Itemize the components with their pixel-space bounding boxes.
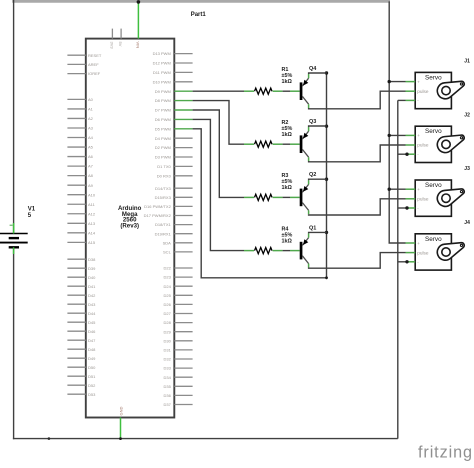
pin AREF bbox=[67, 63, 85, 65]
junction dot minus J3 bbox=[405, 206, 408, 209]
svg-text:D11 PWM: D11 PWM bbox=[153, 70, 171, 75]
wire D5 to emitter rail bbox=[193, 129, 327, 278]
pin D36 bbox=[174, 394, 192, 396]
pin D37 bbox=[174, 404, 192, 406]
pin D52 bbox=[67, 384, 85, 386]
svg-text:D30: D30 bbox=[163, 338, 171, 343]
svg-text:D0 RX0: D0 RX0 bbox=[157, 173, 172, 178]
servo J2 bbox=[406, 126, 452, 162]
pin D7 PWM bbox=[174, 109, 192, 111]
junction dot minus J2 bbox=[405, 153, 408, 156]
svg-text:A13: A13 bbox=[88, 221, 96, 226]
pin D41 bbox=[67, 285, 85, 287]
svg-text:Q1: Q1 bbox=[309, 225, 316, 231]
pin A14 bbox=[67, 232, 85, 234]
pin D6 PWM bbox=[174, 118, 192, 120]
svg-text:D50: D50 bbox=[88, 365, 96, 370]
svg-text:D2 PWM: D2 PWM bbox=[155, 145, 171, 150]
pin D42 bbox=[67, 294, 85, 296]
svg-text:D39: D39 bbox=[88, 266, 96, 271]
svg-text:D7 PWM: D7 PWM bbox=[155, 108, 171, 113]
resistor R3 1k 5% bbox=[244, 194, 290, 200]
pin D15/RX3 bbox=[174, 196, 192, 198]
svg-text:D29: D29 bbox=[163, 329, 171, 334]
svg-text:A10: A10 bbox=[88, 192, 96, 197]
wire top bus from battery plus to servo 5V rail bbox=[12, 0, 390, 3]
svg-text:Servo: Servo bbox=[425, 128, 442, 135]
junction dot 5V rail J1 bbox=[388, 80, 391, 83]
svg-text:D52: D52 bbox=[88, 383, 96, 388]
wire minus rail right bbox=[397, 100, 399, 438]
transistor Q1 PNP bbox=[290, 233, 309, 267]
svg-text:D22: D22 bbox=[163, 266, 171, 271]
pin D32 bbox=[174, 358, 192, 360]
svg-text:D27: D27 bbox=[163, 311, 171, 316]
svg-text:fritzing: fritzing bbox=[418, 444, 473, 462]
wire 5V rail to servo J1 bbox=[389, 81, 405, 83]
wire bottom ground bus bbox=[13, 438, 398, 440]
pin D3 PWM bbox=[174, 156, 192, 158]
pin D44 bbox=[67, 312, 85, 314]
pin D1 TX0 bbox=[174, 165, 192, 167]
pin D13 PWM bbox=[174, 53, 192, 55]
svg-text:Q3: Q3 bbox=[309, 119, 316, 125]
svg-text:A15: A15 bbox=[88, 240, 96, 245]
servo J4 horn bbox=[437, 243, 464, 260]
svg-text:D31: D31 bbox=[163, 348, 171, 353]
wire 5V rail to servo J3 bbox=[389, 188, 405, 190]
pin A6 bbox=[67, 156, 85, 158]
pin D14/TX3 bbox=[174, 187, 192, 189]
svg-text:A5: A5 bbox=[88, 145, 94, 150]
svg-text:J4: J4 bbox=[464, 220, 470, 226]
svg-text:A8: A8 bbox=[88, 173, 94, 178]
svg-text:D19/RX1: D19/RX1 bbox=[155, 231, 172, 236]
wire Q1 emitter to rail bbox=[309, 232, 327, 233]
pin D18/TX1 bbox=[174, 224, 192, 226]
pin A4 bbox=[67, 137, 85, 139]
pin RESET bbox=[67, 54, 85, 56]
pin A11 bbox=[67, 203, 85, 205]
wire Q4 collector to servo pulse bbox=[309, 91, 406, 109]
svg-text:D26: D26 bbox=[163, 302, 171, 307]
servo J1 bbox=[406, 72, 452, 108]
pin 5V bbox=[120, 29, 122, 39]
svg-text:A7: A7 bbox=[88, 164, 94, 169]
svg-text:+: + bbox=[417, 79, 420, 84]
pin D38 bbox=[67, 258, 85, 260]
junction dot 5V rail J3 bbox=[388, 188, 391, 191]
pin D43 bbox=[67, 303, 85, 305]
pin D17 PWM/RX2 bbox=[174, 215, 192, 217]
svg-text:A1: A1 bbox=[88, 107, 94, 112]
junction dot emitter rail D5 wire bbox=[325, 276, 328, 279]
svg-text:D38: D38 bbox=[88, 257, 96, 262]
pin D0 RX0 bbox=[174, 175, 192, 177]
pin IOREF bbox=[67, 73, 85, 75]
resistor R1 1k 5% bbox=[244, 88, 290, 94]
pin D45 bbox=[67, 321, 85, 323]
svg-text:D42: D42 bbox=[88, 293, 96, 298]
svg-text:AREF: AREF bbox=[88, 62, 99, 67]
servo J3 bbox=[406, 180, 452, 216]
svg-text:V1: V1 bbox=[28, 207, 36, 213]
svg-text:pulse: pulse bbox=[417, 250, 429, 255]
svg-text:3V3: 3V3 bbox=[109, 42, 114, 50]
svg-text:D16 PWM/TX2: D16 PWM/TX2 bbox=[144, 204, 171, 209]
pin D29 bbox=[174, 331, 192, 333]
svg-text:SCL: SCL bbox=[163, 250, 172, 255]
pin D19/RX1 bbox=[174, 233, 192, 235]
pin D46 bbox=[67, 330, 85, 332]
svg-text:RESET: RESET bbox=[88, 53, 102, 58]
wire D7 to R3 bbox=[193, 110, 244, 197]
servo J4 bbox=[406, 234, 452, 270]
wire 5V rail to servo J2 bbox=[389, 134, 405, 136]
pin D48 bbox=[67, 348, 85, 350]
pin D28 bbox=[174, 322, 192, 324]
svg-text:D18/TX1: D18/TX1 bbox=[155, 222, 172, 227]
pin A0 bbox=[67, 98, 85, 100]
svg-text:D5 PWM: D5 PWM bbox=[155, 126, 171, 131]
wire emitter rail bbox=[326, 73, 328, 278]
svg-text:(Rev3): (Rev3) bbox=[120, 222, 139, 229]
svg-text:Servo: Servo bbox=[425, 236, 442, 243]
wire 5V rail right bbox=[389, 1, 405, 243]
svg-text:1kΩ: 1kΩ bbox=[282, 79, 293, 85]
junction dot emitter rail Q1 bbox=[325, 231, 328, 234]
wire Q4 emitter to rail bbox=[309, 73, 327, 74]
pin D2 PWM bbox=[174, 147, 192, 149]
transistor Q2 PNP bbox=[290, 180, 309, 214]
junction dot emitter rail Q3 bbox=[325, 125, 328, 128]
pin D24 bbox=[174, 285, 192, 287]
servo J1 horn bbox=[437, 81, 464, 98]
svg-text:+: + bbox=[417, 187, 420, 192]
svg-text:D9 PWM: D9 PWM bbox=[155, 89, 171, 94]
pin D39 bbox=[67, 267, 85, 269]
pin D27 bbox=[174, 313, 192, 315]
pin A7 bbox=[67, 165, 85, 167]
svg-text:+: + bbox=[417, 133, 420, 138]
wire minus servo J4 bbox=[398, 261, 406, 263]
junction dot emitter rail Q2 bbox=[325, 178, 328, 181]
junction dot 5V rail J2 bbox=[388, 134, 391, 137]
pin D4 PWM bbox=[174, 137, 192, 139]
svg-text:D46: D46 bbox=[88, 329, 96, 334]
svg-text:5V: 5V bbox=[118, 42, 123, 47]
svg-text:D37: D37 bbox=[163, 402, 171, 407]
wire Q3 emitter to rail bbox=[309, 126, 327, 127]
wire minus servo J2 bbox=[398, 153, 406, 155]
svg-text:D35: D35 bbox=[163, 384, 171, 389]
svg-text:J3: J3 bbox=[464, 166, 470, 172]
junction dot GND bottom bus bbox=[119, 437, 122, 440]
wire left rail lower bbox=[13, 247, 15, 439]
pin D12 PWM bbox=[174, 62, 192, 64]
svg-text:Servo: Servo bbox=[425, 182, 442, 189]
svg-text:D25: D25 bbox=[163, 293, 171, 298]
servo J2 horn bbox=[437, 135, 464, 152]
pin D5 PWM bbox=[174, 128, 192, 130]
transistor Q4 PNP bbox=[290, 74, 309, 108]
svg-text:pulse: pulse bbox=[417, 143, 429, 148]
pin D25 bbox=[174, 294, 192, 296]
wire Q1 collector to servo pulse bbox=[309, 253, 406, 269]
pin D49 bbox=[67, 357, 85, 359]
svg-text:VIN: VIN bbox=[135, 42, 140, 49]
wire D6 to R4 bbox=[193, 119, 244, 250]
pin D47 bbox=[67, 339, 85, 341]
pin A3 bbox=[67, 127, 85, 129]
pin D10 PWM bbox=[174, 81, 192, 83]
svg-text:D8 PWM: D8 PWM bbox=[155, 98, 171, 103]
resistor R2 1k 5% bbox=[244, 141, 290, 147]
svg-text:D44: D44 bbox=[88, 311, 96, 316]
svg-text:D28: D28 bbox=[163, 320, 171, 325]
svg-text:D40: D40 bbox=[88, 275, 96, 280]
pin A10 bbox=[67, 194, 85, 196]
transistor Q3 PNP bbox=[290, 127, 309, 161]
pin A9 bbox=[67, 184, 85, 186]
pin A1 bbox=[67, 108, 85, 110]
pin SCL bbox=[174, 251, 192, 253]
svg-text:D24: D24 bbox=[163, 284, 171, 289]
pin D26 bbox=[174, 303, 192, 305]
pin D40 bbox=[67, 276, 85, 278]
svg-text:D17 PWM/RX2: D17 PWM/RX2 bbox=[144, 213, 172, 218]
svg-text:D15/RX3: D15/RX3 bbox=[155, 195, 172, 200]
junction dot emitter rail Q4 bbox=[325, 71, 328, 74]
svg-text:D43: D43 bbox=[88, 302, 96, 307]
pin D30 bbox=[174, 340, 192, 342]
wire Q3 collector to servo pulse bbox=[309, 145, 406, 162]
wire Q2 emitter to rail bbox=[309, 179, 327, 180]
junction dot VIN top bus bbox=[137, 0, 141, 4]
junction dot minus J4 bbox=[405, 260, 408, 263]
svg-text:D23: D23 bbox=[163, 275, 171, 280]
svg-text:D10 PWM: D10 PWM bbox=[153, 79, 171, 84]
svg-text:D36: D36 bbox=[163, 393, 171, 398]
svg-text:D47: D47 bbox=[88, 338, 96, 343]
svg-text:D48: D48 bbox=[88, 347, 96, 352]
pin A15 bbox=[67, 241, 85, 243]
pin D31 bbox=[174, 349, 192, 351]
pin 3V3 bbox=[111, 29, 113, 39]
pin D33 bbox=[174, 367, 192, 369]
pin D8 PWM bbox=[174, 100, 192, 102]
pin VIN connected to battery bbox=[137, 3, 139, 39]
svg-text:pulse: pulse bbox=[417, 89, 429, 94]
svg-text:1kΩ: 1kΩ bbox=[282, 238, 293, 244]
svg-text:A4: A4 bbox=[88, 135, 94, 140]
svg-text:A3: A3 bbox=[88, 126, 94, 131]
resistor R4 1k 5% bbox=[244, 248, 290, 254]
pin D16 PWM/TX2 bbox=[174, 205, 192, 207]
pin A13 bbox=[67, 222, 85, 224]
svg-text:A12: A12 bbox=[88, 211, 96, 216]
svg-text:pulse: pulse bbox=[417, 197, 429, 202]
pin A8 bbox=[67, 175, 85, 177]
wire left rail upper bbox=[13, 0, 15, 234]
svg-text:D51: D51 bbox=[88, 374, 96, 379]
svg-text:1kΩ: 1kΩ bbox=[282, 132, 293, 138]
svg-text:Q2: Q2 bbox=[309, 172, 316, 178]
svg-text:A6: A6 bbox=[88, 154, 94, 159]
svg-text:A11: A11 bbox=[88, 202, 96, 207]
svg-text:D45: D45 bbox=[88, 320, 96, 325]
pin D34 bbox=[174, 376, 192, 378]
pin D53 bbox=[67, 393, 85, 395]
pin D22 bbox=[174, 267, 192, 269]
svg-text:D13 PWM: D13 PWM bbox=[153, 51, 171, 56]
servo J3 horn bbox=[437, 189, 464, 206]
pin A12 bbox=[67, 213, 85, 215]
pin D9 PWM bbox=[174, 90, 192, 92]
svg-text:D49: D49 bbox=[88, 356, 96, 361]
pin D50 bbox=[67, 366, 85, 368]
svg-text:Part1: Part1 bbox=[191, 12, 207, 18]
svg-text:D14/TX3: D14/TX3 bbox=[155, 186, 172, 191]
pin D35 bbox=[174, 385, 192, 387]
svg-text:D53: D53 bbox=[88, 392, 96, 397]
svg-text:SDA: SDA bbox=[163, 240, 172, 245]
svg-text:D3 PWM: D3 PWM bbox=[155, 155, 171, 160]
svg-text:D32: D32 bbox=[163, 357, 171, 362]
wire D8 to R2 bbox=[193, 101, 244, 145]
svg-text:A2: A2 bbox=[88, 116, 94, 121]
pin A2 bbox=[67, 117, 85, 119]
svg-text:D4 PWM: D4 PWM bbox=[155, 136, 171, 141]
svg-text:D41: D41 bbox=[88, 284, 96, 289]
wire D9 to R1 bbox=[193, 90, 244, 92]
svg-text:IOREF: IOREF bbox=[88, 71, 101, 76]
svg-text:A0: A0 bbox=[88, 97, 94, 102]
pin SDA bbox=[174, 242, 192, 244]
svg-text:D1 TX0: D1 TX0 bbox=[157, 164, 171, 169]
wire Q2 collector to servo pulse bbox=[309, 199, 406, 215]
pin A5 bbox=[67, 146, 85, 148]
battery V1 bbox=[0, 223, 28, 254]
svg-text:D12 PWM: D12 PWM bbox=[153, 61, 171, 66]
svg-text:GND: GND bbox=[119, 407, 124, 416]
wire minus servo J3 bbox=[398, 207, 406, 209]
svg-text:D33: D33 bbox=[163, 366, 171, 371]
svg-text:J2: J2 bbox=[464, 112, 470, 118]
svg-text:D6 PWM: D6 PWM bbox=[155, 117, 171, 122]
svg-text:D34: D34 bbox=[163, 375, 171, 380]
svg-text:+: + bbox=[417, 241, 420, 246]
svg-text:Servo: Servo bbox=[425, 74, 442, 81]
bendpoint dot bottom bus bbox=[48, 437, 51, 440]
pin D23 bbox=[174, 276, 192, 278]
wire minus servo J1 bbox=[398, 99, 406, 101]
svg-text:J1: J1 bbox=[464, 59, 470, 65]
svg-text:A9: A9 bbox=[88, 183, 94, 188]
part Part1 Arduino Mega 2560 (Rev3) bbox=[86, 39, 175, 418]
pin D11 PWM bbox=[174, 71, 192, 73]
pin D51 bbox=[67, 375, 85, 377]
svg-text:A14: A14 bbox=[88, 230, 96, 235]
pin GND connected to ground bus bbox=[120, 418, 122, 439]
svg-text:1kΩ: 1kΩ bbox=[282, 185, 293, 191]
svg-text:Q4: Q4 bbox=[309, 66, 317, 72]
